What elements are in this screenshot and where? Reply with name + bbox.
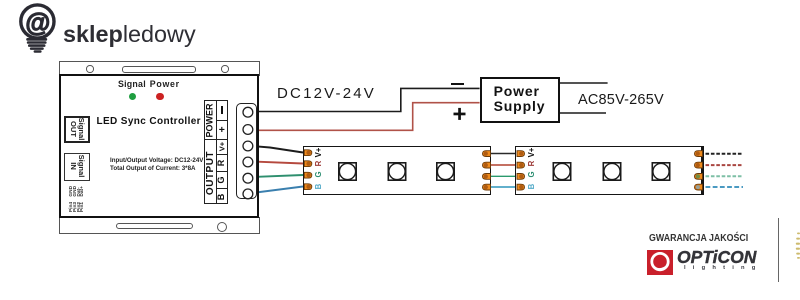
svg-text:@: @ [25, 9, 50, 37]
